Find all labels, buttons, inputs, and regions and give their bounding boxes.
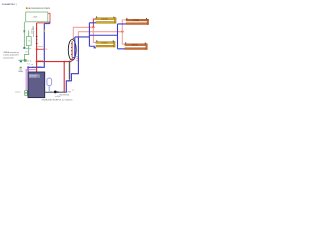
thermometer hook	[68, 79, 70, 81]
svg-text:C22 1200: C22 1200	[133, 20, 139, 22]
vessel green bottom extension	[48, 21, 50, 23]
boiler bottom pipe	[45, 91, 67, 93]
svg-text:GRZEJNIKI KURPOL 22..600mm: GRZEJNIKI KURPOL 22..600mm	[42, 99, 73, 101]
radiator R2 return link (blue)	[118, 23, 127, 25]
riser bubble ellipse	[68, 40, 76, 61]
svg-text:RW 25: RW 25	[43, 49, 47, 51]
bubble return pipe (blue)	[72, 37, 75, 58]
svg-text:w otulinie, spadek 0,5%: w otulinie, spadek 0,5%	[3, 54, 19, 57]
radiator R4 return link (blue)	[118, 48, 125, 50]
radiator R2	[126, 18, 148, 25]
right column riser upper (salmon)	[122, 20, 126, 32]
sight glass box	[26, 37, 31, 46]
capsule stem	[48, 86, 50, 92]
return main right part (blue)	[89, 34, 117, 36]
return elbow into boiler	[27, 67, 29, 71]
left column riser upper (red)	[93, 19, 96, 27]
boiler label band	[29, 74, 40, 78]
fitting marks on return	[32, 67, 34, 68]
expansion vessel label icon	[26, 7, 28, 9]
green fitting on return	[20, 67, 22, 69]
svg-text:SCHEMAT NR 1.): SCHEMAT NR 1.)	[2, 3, 17, 6]
riser pipe inside bubble (red)	[71, 41, 73, 57]
radiator R3	[96, 40, 115, 47]
right return riser (blue)	[117, 24, 119, 49]
marks inside bubble	[71, 42, 72, 45]
radiator R4	[125, 42, 147, 49]
expansion vessel	[26, 12, 48, 22]
svg-text:pompa obieg. co 25W: pompa obieg. co 25W	[57, 91, 71, 93]
return main left part (blue)	[75, 36, 90, 38]
svg-text:C22 1000: C22 1000	[101, 42, 107, 44]
circulation pump dot	[54, 91, 57, 94]
boiler tank	[28, 72, 45, 98]
fill valve (green)	[24, 60, 26, 62]
tick on overflow pipe	[24, 30, 26, 32]
faint red dot near pump label	[72, 90, 73, 91]
expansion drop pipe (blue)	[43, 24, 45, 68]
small red marks right of bubble	[76, 55, 77, 58]
sight glass lower pipe (green)	[24, 46, 28, 60]
svg-text:w kierunku kotla: w kierunku kotla	[3, 56, 14, 59]
boiler safety riser (red)	[36, 23, 38, 72]
svg-text:25dm: 25dm	[33, 17, 38, 19]
sight glass pipe (green)	[28, 30, 30, 36]
valve tick on blue drop	[44, 30, 46, 32]
svg-text:rura wzb.: rura wzb.	[38, 46, 44, 48]
svg-text:UWAGA: wszystkie rury: UWAGA: wszystkie rury	[3, 51, 19, 54]
junction dot left column	[92, 26, 94, 28]
boiler return main (blue)	[28, 66, 45, 68]
boiler supply main (red)	[37, 61, 72, 63]
svg-text:C22 1000: C22 1000	[101, 19, 107, 21]
radiator R1 return link (blue)	[89, 22, 96, 24]
right column riser lower (salmon)	[122, 32, 125, 44]
svg-text:fi 25mm: fi 25mm	[31, 28, 33, 34]
left column riser lower (salmon)	[93, 27, 96, 42]
pump blue fitting	[57, 91, 59, 93]
floor supply riser 2 (salmon)	[78, 32, 122, 37]
pump branch pipe (red) down	[63, 62, 65, 93]
valve marks on riser	[36, 36, 38, 37]
drain branch pipe (green)	[18, 59, 25, 61]
DHW pipe (magenta)	[26, 70, 36, 91]
safety pipe (red) from vessel right to riser	[37, 13, 50, 23]
svg-text:fi25: fi25	[25, 52, 28, 54]
junction dot supply/pump branch	[63, 61, 65, 63]
radiator R3 return link (blue)	[89, 46, 96, 48]
return riser staircase (blue)	[66, 36, 78, 92]
expansion link pipe (red) riser to blue drop	[37, 48, 45, 50]
floor supply riser 1 (salmon)	[73, 27, 93, 39]
svg-text:WILO RS 25/4: WILO RS 25/4	[59, 95, 69, 97]
junction dot riser/expansion link	[36, 48, 38, 50]
radiator R1	[96, 16, 116, 23]
junction dot at bubble bottom	[71, 58, 73, 60]
arrowhead into bubble	[73, 38, 75, 39]
thermometer stem (gray)	[69, 61, 71, 80]
drain grate cap (teal)	[23, 47, 25, 49]
svg-text:fi 15: fi 15	[27, 63, 30, 65]
expansion connecting pipe (blue) top jog	[44, 22, 50, 24]
overflow pipe (green)	[23, 22, 25, 47]
left return riser (blue)	[88, 23, 90, 46]
junction dot right column	[121, 30, 123, 32]
svg-text:h= 0,5m: h= 0,5m	[55, 96, 61, 98]
pipe fittings	[51, 91, 52, 93]
drain valve (green) bottom left	[25, 91, 28, 96]
svg-text:C22 1200: C22 1200	[131, 45, 137, 47]
pump capsule (expansion tank)	[47, 78, 52, 86]
drain tap (teal)	[20, 61, 22, 63]
svg-text:25: 25	[28, 41, 30, 43]
svg-text:SEG 25kW: SEG 25kW	[29, 77, 36, 79]
